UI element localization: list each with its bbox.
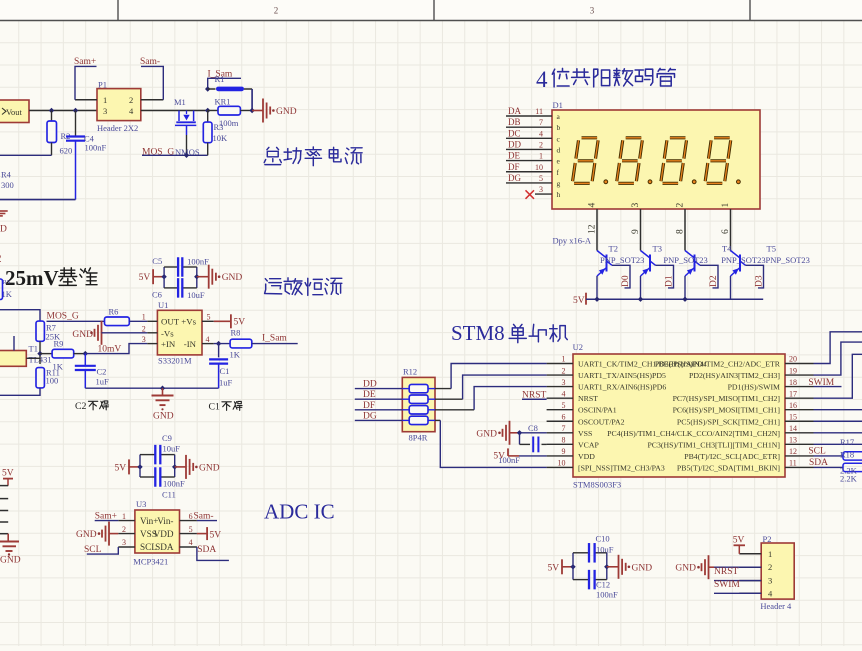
wire C4 bottom to left edge <box>0 199 76 201</box>
wire <box>355 398 403 400</box>
pin U3.6 <box>180 520 197 522</box>
svg-text:D: D <box>0 225 7 235</box>
svg-text:SDA: SDA <box>155 542 174 552</box>
svg-text:10: 10 <box>535 163 543 172</box>
wire R11 bottom to left edge <box>0 388 40 395</box>
wire node to U1 pin3 (net 10mV) <box>85 344 147 354</box>
svg-text:25mV: 25mV <box>5 266 59 290</box>
svg-text:5V: 5V <box>548 563 560 573</box>
svg-text:5V: 5V <box>210 531 222 541</box>
resistor R12.3 <box>402 409 409 411</box>
pin U3.2 <box>118 533 135 535</box>
wire collector <box>700 265 718 288</box>
svg-text:C2: C2 <box>97 367 107 377</box>
pin P1.4 wire to M1 <box>141 110 208 112</box>
junction GND rail <box>160 386 165 391</box>
resistor R2 <box>51 111 53 122</box>
junction <box>517 430 522 435</box>
resistor R12.2 <box>402 398 409 400</box>
svg-text:ADC IC: ADC IC <box>264 500 335 524</box>
pin P1.1 <box>75 99 97 101</box>
wire pin17 <box>814 354 862 398</box>
svg-text:D1: D1 <box>665 275 675 287</box>
svg-text:R9: R9 <box>54 339 64 349</box>
svg-text:4: 4 <box>588 203 598 208</box>
pin D1.12 <box>596 209 598 251</box>
svg-text:PD3(HS)/AIN4/TIM2_CH2/ADC_ETR: PD3(HS)/AIN4/TIM2_CH2/ADC_ETR <box>655 360 781 369</box>
digit 1 <box>573 138 599 184</box>
svg-text:GND: GND <box>675 564 696 574</box>
svg-text:14: 14 <box>789 424 797 433</box>
svg-text:R4: R4 <box>1 170 12 180</box>
svg-text:T2: T2 <box>609 243 618 253</box>
digit 4 <box>705 138 731 184</box>
svg-text:2: 2 <box>676 203 686 208</box>
pin (left edge) <box>0 510 8 512</box>
svg-text:19: 19 <box>789 366 797 375</box>
transistor T5 (PNP_SOT23) <box>731 251 741 259</box>
svg-text:3: 3 <box>103 106 107 116</box>
svg-text:100nF: 100nF <box>187 257 209 267</box>
pin U2.8 <box>547 443 573 445</box>
svg-text:+Vs: +Vs <box>181 317 196 327</box>
svg-text:-IN: -IN <box>184 339 197 349</box>
earth ground GND <box>162 388 164 395</box>
pin U2.13 <box>785 443 814 445</box>
pin P1.3 <box>29 110 97 112</box>
svg-text:1: 1 <box>562 355 566 364</box>
svg-text:T3: T3 <box>653 243 662 253</box>
svg-text:100: 100 <box>46 376 59 386</box>
svg-text:R8: R8 <box>231 328 241 338</box>
capacitor C5 <box>177 257 179 277</box>
no connect X on pin 3 <box>526 190 535 199</box>
svg-text:3: 3 <box>539 185 543 194</box>
svg-text:C9: C9 <box>162 433 172 443</box>
junction R7/R9 <box>37 351 42 356</box>
svg-text:VDD: VDD <box>578 452 595 461</box>
svg-text:11: 11 <box>789 459 797 468</box>
capacitor C11 <box>154 467 156 487</box>
wire pin19 <box>814 342 862 375</box>
svg-text:T4: T4 <box>722 243 732 253</box>
svg-text:OSCIN/PA1: OSCIN/PA1 <box>578 406 617 415</box>
svg-text:DG: DG <box>508 173 521 183</box>
pin P2.3 <box>739 580 761 582</box>
wire <box>355 388 403 390</box>
pin (left edge) <box>0 533 8 535</box>
svg-text:R12: R12 <box>403 367 417 377</box>
svg-text:10mV: 10mV <box>98 345 122 355</box>
capacitor C4 <box>75 111 77 137</box>
svg-text:PD1(HS)/SWIM: PD1(HS)/SWIM <box>728 383 780 392</box>
pin (left edge) <box>0 521 8 523</box>
wire pin13 <box>814 443 862 445</box>
svg-text:5V: 5V <box>493 452 505 462</box>
resistor R12.4 <box>402 419 409 421</box>
svg-text:1: 1 <box>768 549 772 559</box>
svg-text:8: 8 <box>676 229 686 234</box>
transistor T2 (PNP_SOT23) <box>597 251 607 259</box>
svg-text:PC7(HS)/SPI_MISO[TIM1_CH2]: PC7(HS)/SPI_MISO[TIM1_CH2] <box>673 394 781 403</box>
wire cap bracket <box>139 455 141 477</box>
svg-text:b: b <box>557 123 561 132</box>
wire emitter <box>730 276 732 299</box>
pin U2.12 <box>785 455 814 457</box>
pin U3.4 <box>180 546 197 548</box>
pin U2.10 <box>547 466 573 468</box>
wire <box>355 409 403 411</box>
pin U2.15 <box>785 420 814 422</box>
svg-text:3: 3 <box>590 6 595 16</box>
svg-text:U3: U3 <box>136 499 146 509</box>
svg-text:C12: C12 <box>596 580 610 590</box>
svg-text:SCL: SCL <box>84 545 102 555</box>
svg-text:R5: R5 <box>3 279 11 286</box>
svg-text:PB4(T)/I2C_SCL[ADC_ETR]: PB4(T)/I2C_SCL[ADC_ETR] <box>684 452 780 461</box>
pin U2.2 <box>547 374 573 376</box>
wire collector <box>656 265 674 288</box>
svg-text:5V: 5V <box>115 463 127 473</box>
earth ground (left edge) <box>7 534 9 541</box>
ground rail wire <box>85 387 218 389</box>
svg-text:C1: C1 <box>209 402 221 413</box>
svg-text:PC4(HS)/TIM1_CH4/CLK_CCO/AIN2[: PC4(HS)/TIM1_CH4/CLK_CCO/AIN2[TIM1_CH2N] <box>607 429 780 438</box>
svg-text:GND: GND <box>76 530 97 540</box>
wire main node row y=110.5 <box>29 110 97 112</box>
svg-text:6: 6 <box>189 512 193 521</box>
svg-text:DF: DF <box>508 162 520 172</box>
svg-text:12: 12 <box>588 224 598 234</box>
svg-text:300: 300 <box>1 180 14 190</box>
svg-text:12: 12 <box>789 447 797 456</box>
pin U3.3 <box>118 546 135 548</box>
pin D1.10 <box>506 171 552 173</box>
capacitor C6 <box>177 278 179 298</box>
svg-text:PNP_SOT23: PNP_SOT23 <box>663 255 707 265</box>
wire cap bracket <box>572 553 574 580</box>
svg-text:SCL: SCL <box>808 446 826 456</box>
svg-text:PC6(HS)/SPI_MOSI[TIM1_CH1]: PC6(HS)/SPI_MOSI[TIM1_CH1] <box>673 406 781 415</box>
svg-text:2: 2 <box>768 562 772 572</box>
svg-text:C11: C11 <box>162 490 176 500</box>
net label SWIM + wire pin18 <box>814 386 842 388</box>
svg-text:620: 620 <box>60 146 73 156</box>
power ground <box>197 276 209 278</box>
svg-text:T5: T5 <box>767 243 776 253</box>
pin U2.3 <box>547 386 573 388</box>
svg-text:5: 5 <box>207 313 211 322</box>
svg-text:5V: 5V <box>573 296 585 306</box>
pin D1.9 <box>640 209 642 251</box>
wire pin15 <box>814 420 862 422</box>
svg-text:D3: D3 <box>755 275 765 287</box>
svg-text:1uF: 1uF <box>96 377 110 387</box>
svg-text:5V: 5V <box>234 318 246 328</box>
svg-text:R17: R17 <box>840 437 854 447</box>
svg-text:2: 2 <box>0 251 2 265</box>
svg-text:M1: M1 <box>174 97 186 107</box>
svg-text:GND: GND <box>632 563 653 573</box>
pin U2.17 <box>785 397 814 399</box>
svg-text:GND: GND <box>276 107 297 117</box>
svg-text:PNP_SOT23: PNP_SOT23 <box>600 255 644 265</box>
svg-text:PNP_SOT23: PNP_SOT23 <box>721 255 765 265</box>
resistor R7 <box>0 310 40 321</box>
svg-text:C6: C6 <box>152 289 162 299</box>
pin P2.1 <box>739 553 761 555</box>
sheet border / title strip <box>0 0 862 21</box>
svg-text:4: 4 <box>536 67 548 92</box>
svg-text:KR1: KR1 <box>215 97 231 107</box>
junction M1 gate <box>184 153 189 158</box>
capacitor C12 <box>588 570 590 590</box>
svg-text:UART1_RX/AIN6(HS)PD6: UART1_RX/AIN6(HS)PD6 <box>578 383 666 392</box>
svg-text:U1: U1 <box>158 300 168 310</box>
svg-text:VCAP: VCAP <box>578 440 599 449</box>
svg-text:OUT: OUT <box>161 317 180 327</box>
wire emitter <box>684 276 686 299</box>
svg-text:1: 1 <box>122 512 126 521</box>
svg-text:R1: R1 <box>215 74 225 84</box>
svg-text:1: 1 <box>103 95 107 105</box>
svg-text:GND: GND <box>222 273 243 283</box>
junction rail <box>594 297 599 302</box>
svg-text:UART1_TX/AIN5(HS)PD5: UART1_TX/AIN5(HS)PD5 <box>578 371 666 380</box>
svg-text:Header 2X2: Header 2X2 <box>97 123 138 133</box>
svg-text:10uF: 10uF <box>163 444 181 454</box>
pin U2.19 <box>785 374 814 376</box>
svg-text:D1: D1 <box>553 100 563 110</box>
svg-text:STM8: STM8 <box>451 321 505 345</box>
svg-text:C8: C8 <box>528 423 538 433</box>
svg-text:U2: U2 <box>573 342 583 352</box>
svg-text:5V: 5V <box>2 469 14 479</box>
wire R2 bottom rail <box>0 154 52 156</box>
svg-text:C5: C5 <box>152 256 162 266</box>
wire R12.4 to U2 pin10 <box>435 419 440 421</box>
svg-text:SDA: SDA <box>197 545 216 555</box>
svg-text:SWIM: SWIM <box>714 580 740 590</box>
svg-text:STM8S003F3: STM8S003F3 <box>573 480 621 490</box>
resistor R12.1 <box>402 388 409 390</box>
svg-text:5V: 5V <box>139 273 151 283</box>
svg-text:5: 5 <box>562 401 566 410</box>
svg-text:h: h <box>557 190 561 199</box>
pin D1.2 <box>506 148 552 150</box>
svg-text:I_Sam: I_Sam <box>262 334 287 344</box>
svg-text:4: 4 <box>189 538 193 547</box>
svg-text:9: 9 <box>631 229 641 234</box>
svg-text:Vout: Vout <box>6 107 23 117</box>
pin U3.5 <box>180 533 197 535</box>
pin U2.7 <box>547 432 573 434</box>
pin D1.3 <box>535 193 552 195</box>
pin D1.11 <box>506 115 552 117</box>
wire emitter <box>596 276 598 299</box>
capacitor C10 <box>588 543 590 563</box>
svg-text:NRST: NRST <box>578 394 598 403</box>
svg-text:17: 17 <box>789 389 797 398</box>
svg-text:13: 13 <box>789 436 797 445</box>
svg-text:PC5(HS)/SPI_SCK[TIM2_CH1]: PC5(HS)/SPI_SCK[TIM2_CH1] <box>677 417 781 426</box>
svg-text:D0: D0 <box>621 275 631 287</box>
svg-text:GND: GND <box>153 412 174 422</box>
power ground GND (total current section) <box>262 99 264 123</box>
svg-text:DB: DB <box>508 117 521 127</box>
svg-text:1: 1 <box>721 203 731 208</box>
junction at C4 top <box>73 108 78 113</box>
pin U2.5 <box>547 409 573 411</box>
svg-text:T1: T1 <box>29 344 38 354</box>
svg-text:2: 2 <box>562 366 566 375</box>
svg-text:100nF: 100nF <box>163 479 185 489</box>
wire collector <box>746 265 764 288</box>
wire emitter <box>640 276 642 299</box>
svg-text:Sam+: Sam+ <box>74 57 96 67</box>
svg-text:3: 3 <box>562 378 566 387</box>
pin U2.18 <box>785 386 814 388</box>
svg-text:8P4R: 8P4R <box>409 433 428 443</box>
svg-text:18: 18 <box>789 378 797 387</box>
svg-text:DE: DE <box>508 151 520 161</box>
transistor T3 (PNP_SOT23) <box>641 251 651 259</box>
pin D1.5 <box>506 182 552 184</box>
svg-text:R18: R18 <box>840 450 854 460</box>
svg-text:2: 2 <box>274 6 279 16</box>
junction R9 right / C2 <box>83 351 88 356</box>
power 5V at U1.5 <box>214 320 231 322</box>
svg-text:DA: DA <box>508 106 521 116</box>
pin D1.6 <box>730 209 732 251</box>
wire R12.3 to U2 pin3 <box>435 409 474 411</box>
svg-text:NRST: NRST <box>714 567 738 577</box>
svg-text:DC: DC <box>508 128 521 138</box>
svg-text:DD: DD <box>508 139 521 149</box>
svg-text:5: 5 <box>539 174 543 183</box>
wire to GND <box>252 110 263 112</box>
svg-text:Vin+: Vin+ <box>140 516 158 526</box>
svg-text:10K: 10K <box>213 133 229 143</box>
capacitor C1 <box>218 344 220 358</box>
pin U2.11 <box>785 466 814 468</box>
svg-text:GND: GND <box>0 556 21 566</box>
power ground <box>607 566 619 568</box>
pin D1.8 <box>684 209 686 251</box>
svg-text:PNP_SOT23: PNP_SOT23 <box>766 255 810 265</box>
svg-text:OSCOUT/PA2: OSCOUT/PA2 <box>578 417 625 426</box>
transistor T4 (PNP_SOT23) <box>685 251 695 259</box>
svg-text:1uF: 1uF <box>219 378 233 388</box>
junction KR1 right <box>249 108 254 113</box>
svg-text:2: 2 <box>539 140 543 149</box>
svg-text:100m: 100m <box>219 118 239 128</box>
svg-text:1: 1 <box>539 152 543 161</box>
power ground <box>175 466 186 468</box>
svg-text:2: 2 <box>129 95 133 105</box>
svg-text:C2: C2 <box>75 401 87 412</box>
svg-text:PC3(HS)/TIM1_CH3[TLI][TIM1_CH1: PC3(HS)/TIM1_CH3[TLI][TIM1_CH1N] <box>647 440 780 449</box>
svg-text:PD2(HS)/AIN3[TIM2_CH3]: PD2(HS)/AIN3[TIM2_CH3] <box>689 371 780 380</box>
svg-text:SWIM: SWIM <box>808 378 834 388</box>
pin D1.1 <box>506 160 552 162</box>
svg-text:VDD: VDD <box>154 529 174 539</box>
pin D1.7 <box>506 126 552 128</box>
svg-text:11: 11 <box>535 107 543 116</box>
svg-text:GND: GND <box>199 463 220 473</box>
svg-text:1K: 1K <box>230 350 241 360</box>
svg-text:+IN: +IN <box>161 339 176 349</box>
svg-text:MCP3421: MCP3421 <box>133 557 168 567</box>
svg-text:4: 4 <box>539 129 543 138</box>
pin U2.16 <box>785 409 814 411</box>
svg-text:20: 20 <box>789 355 797 364</box>
svg-text:2.2K: 2.2K <box>840 474 858 484</box>
left edge ground fragment <box>0 210 8 212</box>
svg-text:S33201M: S33201M <box>158 356 192 366</box>
svg-text:4: 4 <box>206 335 210 344</box>
svg-text:Vin-: Vin- <box>157 516 173 526</box>
svg-text:10uF: 10uF <box>187 290 205 300</box>
pin (left edge) <box>0 485 8 487</box>
resistor R11 <box>36 368 44 388</box>
svg-text:6: 6 <box>721 229 731 234</box>
svg-text:Dpy x16-A: Dpy x16-A <box>553 236 592 246</box>
pin U2.6 <box>547 420 573 422</box>
pin P2.4 <box>739 592 761 594</box>
svg-text:D2: D2 <box>709 275 719 287</box>
pin D1.4 <box>506 137 552 139</box>
svg-text:[SPI_NSS]TIM2_CH3/PA3: [SPI_NSS]TIM2_CH3/PA3 <box>578 463 665 472</box>
resistor R3 <box>205 108 210 113</box>
svg-text:9: 9 <box>562 447 566 456</box>
wire R12.2 to U2 pin2 <box>435 398 463 400</box>
svg-text:3: 3 <box>142 335 146 344</box>
svg-text:6: 6 <box>562 412 566 421</box>
title text 运放恒流 <box>265 279 282 294</box>
svg-text:3: 3 <box>631 203 641 208</box>
svg-text:-Vs: -Vs <box>161 329 174 339</box>
pin P2.2 <box>739 566 761 568</box>
wire pin16 <box>814 409 862 411</box>
svg-text:16: 16 <box>789 401 797 410</box>
pin U2.1 <box>547 363 573 365</box>
svg-text:7: 7 <box>562 424 566 433</box>
pin U2.9 <box>547 455 573 457</box>
wire cap bracket <box>163 267 165 288</box>
digit 3 <box>661 138 687 184</box>
svg-text:3: 3 <box>768 576 772 586</box>
svg-text:R6: R6 <box>109 307 119 317</box>
svg-text:GND: GND <box>476 430 497 440</box>
pin (left edge) <box>0 498 8 500</box>
power 5V at U3.5 <box>197 533 207 535</box>
svg-text:100nF: 100nF <box>85 143 107 153</box>
capacitor C2 <box>84 354 86 366</box>
pin P1.2 <box>141 99 164 101</box>
pin U3.1 <box>118 520 135 522</box>
title text 总功率电流 <box>264 147 281 164</box>
svg-text:2: 2 <box>122 525 126 534</box>
svg-text:g: g <box>557 179 561 188</box>
svg-text:10: 10 <box>558 459 566 468</box>
svg-text:MOS_G: MOS_G <box>47 312 79 322</box>
svg-text:GND: GND <box>72 330 93 340</box>
svg-text:Sam-: Sam- <box>140 57 160 67</box>
wire pin14 <box>814 432 862 434</box>
wire <box>355 419 403 421</box>
wire collector <box>612 265 630 288</box>
